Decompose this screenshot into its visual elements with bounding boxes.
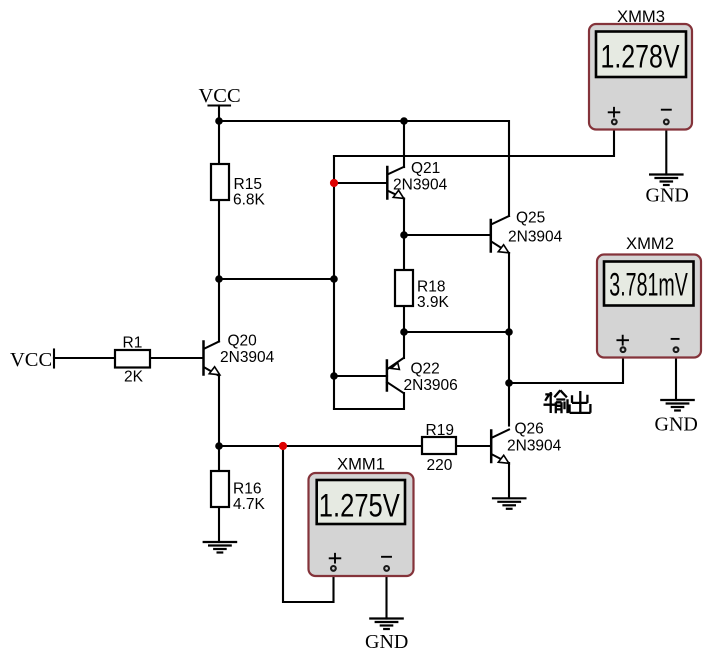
multimeter XMM2 (597, 234, 701, 358)
wire Q21 collector vertical (403, 121, 405, 167)
svg-text:Q25: Q25 (516, 210, 545, 227)
wire Q25 emitter vertical (508, 253, 510, 383)
svg-text:3.781mV: 3.781mV (609, 267, 688, 303)
svg-text:4.7K: 4.7K (233, 496, 266, 513)
junction node B red dot XMM1 tap (279, 442, 287, 450)
wire R1 to Q20 base (150, 357, 203, 359)
junction dot R15 bottom node left (215, 275, 223, 283)
junction dot at VCC rail left (215, 117, 223, 125)
wire XMM2 minus to ground (675, 353, 677, 400)
wire node to Q26 collector (508, 383, 510, 426)
svg-text:VCC: VCC (10, 349, 52, 371)
resistor R16 (211, 471, 266, 513)
svg-text:R19: R19 (426, 422, 454, 439)
pin VCC (left) terminal tick (53, 350, 55, 368)
transistor Q21 2N3904 (387, 160, 447, 199)
junction dot Q25 emitter node (505, 328, 513, 336)
wire node to R18 top (403, 235, 405, 270)
svg-text:GND: GND (655, 414, 698, 436)
junction node A red dot Q21 base (330, 179, 338, 187)
svg-text:Q22: Q22 (411, 361, 440, 378)
net label output 输出 (544, 390, 591, 413)
svg-text:VCC: VCC (199, 85, 241, 107)
junction dot R18 bottom node (400, 328, 408, 336)
junction dot R15 bottom node right (330, 275, 338, 283)
wire Q26 emitter to ground (508, 463, 510, 498)
wire XMM1 minus to ground (385, 571, 387, 619)
wire VCC to R1 (54, 357, 115, 359)
multimeter XMM3 (589, 7, 692, 130)
transistor Q25 2N3904 (491, 210, 563, 253)
wire XMM1 plus lead (283, 446, 334, 602)
svg-text:R15: R15 (234, 176, 262, 193)
wire Q22 base (334, 375, 387, 377)
svg-text:GND: GND (646, 185, 689, 207)
svg-text:Q21: Q21 (411, 160, 440, 177)
svg-text:220: 220 (427, 457, 453, 474)
wire emitter node to R19 (219, 445, 422, 447)
multimeter XMM1 (309, 455, 414, 577)
wire node to R16 top (218, 446, 220, 471)
wire R16 bottom to ground (218, 507, 220, 542)
wire Q21 emitter to node (403, 199, 405, 236)
wire output node to XMM2 plus (509, 353, 623, 383)
svg-text:Q20: Q20 (228, 333, 258, 350)
junction dot Q21 emitter node (400, 231, 408, 239)
transistor Q22 2N3906 (PNP) (387, 358, 458, 394)
junction dot at Q21 collector on rail (400, 117, 408, 125)
resistor R18 (395, 270, 450, 311)
svg-text:2K: 2K (124, 369, 144, 386)
svg-text:1.278V: 1.278V (601, 39, 681, 75)
wire Q20 emitter vertical (218, 376, 220, 446)
wire XMM3 minus to ground (665, 125, 667, 175)
wire R15 branch vertical (218, 121, 220, 164)
svg-text:XMM1: XMM1 (337, 455, 385, 474)
svg-text:GND: GND (365, 631, 408, 653)
wire vertical rail x=334 (333, 156, 335, 409)
svg-text:XMM2: XMM2 (626, 234, 674, 253)
wire node to Q25 base (404, 234, 490, 236)
svg-text:2N3904: 2N3904 (508, 229, 563, 246)
resistor R15 (211, 164, 266, 209)
svg-text:Q26: Q26 (515, 421, 544, 438)
wire node to Q22 emitter (403, 332, 405, 358)
transistor Q20 2N3904 (204, 333, 275, 376)
svg-text:6.8K: 6.8K (233, 192, 266, 209)
ground under R16 (204, 542, 236, 553)
wire R15 bottom to Q20 collector (218, 200, 220, 342)
wire R19 to Q26 base (456, 445, 491, 447)
power VCC (top) (209, 106, 231, 122)
ground under XMM3 (650, 175, 682, 186)
svg-text:R1: R1 (123, 335, 143, 352)
wire Q21 base (334, 182, 387, 184)
svg-text:2N3906: 2N3906 (404, 377, 458, 394)
wire R18 bottom to node (403, 306, 405, 332)
junction dot Q20 emitter node (215, 442, 223, 450)
wire XMM3 plus lead (334, 125, 614, 156)
wire top bus VCC rail to Q25 collector (219, 121, 509, 216)
resistor R19 (422, 422, 456, 474)
junction dot Q22 base node (330, 372, 338, 380)
svg-text:R16: R16 (233, 481, 261, 498)
resistor R1 (115, 335, 150, 386)
wire node between R15 and x334 rail (219, 278, 334, 280)
svg-text:1.275V: 1.275V (319, 488, 401, 524)
ground under XMM1 (370, 619, 402, 630)
svg-text:2N3904: 2N3904 (393, 177, 448, 194)
svg-text:R18: R18 (417, 279, 445, 296)
ground under Q26 (493, 498, 525, 509)
ground under XMM2 (661, 400, 693, 411)
junction dot output node (505, 379, 513, 387)
svg-text:3.9K: 3.9K (417, 294, 450, 311)
wire Q22 collector loop (334, 393, 404, 409)
svg-text:2N3904: 2N3904 (507, 438, 562, 455)
wire R18 node to Q25 emitter node (404, 331, 509, 333)
svg-text:2N3904: 2N3904 (220, 349, 275, 366)
transistor Q26 2N3904 (491, 421, 561, 464)
